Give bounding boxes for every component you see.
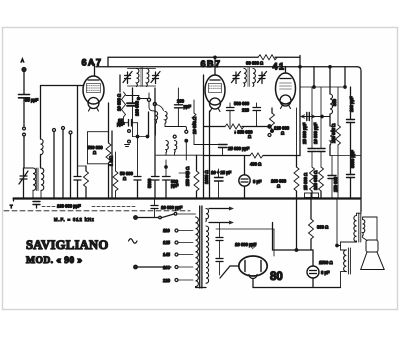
resistor 20000 ohm [192, 100, 219, 145]
svg-text:25 000 µµF: 25 000 µµF [228, 146, 250, 151]
bias line with resistor 400 ohm [204, 153, 301, 167]
heavy ground bus [14, 197, 361, 199]
svg-text:1 MΩ: 1 MΩ [109, 156, 114, 166]
mains switch [134, 213, 196, 220]
capacitor 10000uuF mains [151, 199, 183, 218]
junction dot [313, 86, 315, 88]
capacitor row 1 [147, 88, 159, 199]
osc upper switch circles [147, 93, 163, 111]
svg-text:M.F. = 312 kHz: M.F. = 312 kHz [54, 217, 95, 222]
wire left long [77, 86, 79, 177]
tube 6A7 [83, 64, 104, 111]
resistor 60000 ohm [246, 55, 277, 66]
svg-text:250 000 Ω: 250 000 Ω [331, 124, 336, 143]
capacitor 25000uuF column [302, 87, 316, 167]
long dashed shield line [4, 210, 190, 212]
resistor 500000 ohm [88, 103, 114, 199]
wire 41 cathode [296, 108, 298, 156]
wire [40, 155, 42, 169]
svg-text:250 000: 250 000 [333, 176, 338, 192]
IF transformer 2 [232, 68, 267, 87]
resistor 300 ohm [309, 199, 329, 251]
wire [111, 131, 113, 199]
svg-text:Ω: Ω [123, 176, 126, 181]
svg-text:Ω: Ω [93, 150, 96, 155]
AVC coupling capacitor [301, 113, 330, 121]
coil 1000 [330, 114, 333, 156]
svg-text:400 Ω: 400 Ω [250, 162, 261, 167]
fuse boxes [305, 193, 319, 198]
svg-text:41: 41 [273, 62, 286, 72]
svg-text:100 000 µµF: 100 000 µµF [57, 204, 81, 209]
AC squiggle [129, 239, 138, 244]
mains voltage taps [163, 228, 193, 283]
svg-text:SAVIGLIANO: SAVIGLIANO [26, 238, 109, 252]
svg-text:110: 110 [163, 228, 170, 233]
output transformer [354, 213, 377, 242]
resistor 25000 ohm [303, 167, 315, 199]
resistor 400 ohm cathode [78, 166, 89, 199]
tube 41 [276, 67, 296, 109]
svg-text:10 000 µµF: 10 000 µµF [235, 242, 257, 247]
svg-text:1500 Ω: 1500 Ω [319, 260, 333, 265]
resistor 100000 ohm [271, 156, 299, 199]
osc upper coil b [165, 112, 167, 124]
wire HT line [273, 199, 314, 252]
wire rectifier bottom bus [253, 287, 341, 289]
mains line with arrow [134, 265, 171, 269]
wire rectifier left [220, 266, 238, 278]
HT arrows to rectifier [209, 207, 234, 225]
svg-text:60 000 Ω: 60 000 Ω [246, 61, 263, 66]
electrolytic 8uF circle [239, 156, 262, 199]
power transformer [196, 206, 209, 288]
osc pad capacitor [74, 177, 81, 199]
svg-text:8 µF: 8 µF [321, 270, 330, 275]
wire [300, 86, 345, 88]
osc bottom rail [156, 155, 204, 175]
wire y155 extension [330, 155, 361, 157]
svg-text:50 µµF: 50 µµF [25, 98, 39, 103]
svg-text:220: 220 [163, 278, 171, 283]
terminal 120000 ohm [268, 125, 290, 136]
IF transformer 1 [123, 68, 160, 87]
ground capacitor [33, 202, 40, 209]
filter capacitors 10000uuF [216, 223, 257, 276]
osc upper coil a [156, 112, 158, 124]
svg-text:80: 80 [270, 271, 283, 283]
wire [41, 85, 84, 87]
svg-text:250 000 Ω: 250 000 Ω [185, 167, 190, 186]
svg-text:500 000: 500 000 [234, 101, 250, 106]
capacitor 10000uuF column [313, 87, 325, 167]
svg-text:Ω: Ω [281, 131, 284, 136]
svg-text:6B7: 6B7 [201, 59, 222, 69]
svg-text:Ω: Ω [248, 134, 251, 139]
svg-text:6A7: 6A7 [82, 58, 103, 68]
svg-text:100 000: 100 000 [135, 100, 140, 116]
wire tall [132, 88, 134, 103]
terminal T [10, 199, 14, 210]
svg-text:T: T [10, 204, 13, 209]
coupling capacitor 100000 [126, 96, 147, 137]
resistor 250000 ohm top [331, 87, 341, 199]
svg-text:5000: 5000 [147, 178, 152, 188]
wire [209, 111, 211, 199]
svg-text:850: 850 [332, 98, 337, 106]
antenna coil pair [24, 168, 44, 199]
svg-text:µµF: µµF [184, 104, 192, 109]
switch terminal [62, 127, 65, 199]
svg-text:100 000 Ω: 100 000 Ω [313, 171, 318, 190]
band switch contacts mid [125, 130, 131, 147]
wire plate line y229 [216, 229, 274, 256]
resistor 250000 vertical [185, 155, 199, 198]
loudspeaker [361, 240, 385, 270]
field coil [336, 199, 357, 288]
wire [203, 75, 205, 199]
svg-text:20 000 Ω: 20 000 Ω [192, 117, 197, 134]
svg-text:10 000 Ω: 10 000 Ω [117, 94, 122, 111]
svg-text:10 + 25 µF: 10 + 25 µF [211, 170, 232, 175]
dashed line 100000uuF [42, 206, 135, 208]
wire [313, 67, 315, 88]
svg-text:10 000 µµF: 10 000 µµF [161, 205, 183, 210]
resistor 10000 ohm [117, 75, 126, 117]
electrolytic 10+25uF [211, 169, 232, 199]
svg-text:A: A [21, 58, 24, 63]
tube 6B7 [205, 57, 225, 111]
capacitor 100uuF [347, 87, 355, 174]
antenna terminal A [21, 58, 26, 94]
top bus wires [96, 56, 361, 212]
RF coil L1 [41, 139, 44, 155]
resistor under 41 [268, 108, 275, 137]
svg-text:200: 200 [177, 99, 185, 104]
osc junction dots [133, 112, 149, 138]
svg-text:220: 220 [242, 108, 250, 113]
svg-text:125: 125 [163, 240, 171, 245]
capacitor 15uuF [117, 117, 138, 135]
resistor 350000 ohm [204, 124, 268, 139]
capacitor 50uuF antenna [19, 95, 39, 127]
svg-text:5000 µµF: 5000 µµF [350, 150, 355, 168]
svg-text:10 000 µµF: 10 000 µµF [313, 122, 318, 144]
switch terminal [69, 131, 72, 199]
svg-text:145: 145 [163, 252, 171, 257]
svg-text:25 000 µµF: 25 000 µµF [302, 122, 307, 144]
capacitor 5000uuF [347, 150, 356, 199]
svg-text:MOD. « 90 »: MOD. « 90 » [26, 255, 83, 266]
capacitor 220 [253, 103, 261, 127]
svg-text:8 µF: 8 µF [253, 179, 262, 184]
tuning trimmer [19, 168, 28, 199]
capacitor 250000 [328, 156, 338, 199]
osc switch wire [156, 124, 188, 161]
resistor 100000 ohm right [313, 167, 324, 199]
capacitor 500000 [227, 101, 250, 127]
choke 850 [330, 67, 337, 115]
svg-text:100 µµF: 100 µµF [349, 96, 354, 112]
svg-text:300 Ω: 300 Ω [317, 225, 328, 230]
wire 41 plate [299, 56, 301, 156]
oscillator coil a [166, 141, 168, 156]
resistor 50000 ohm [113, 152, 133, 199]
oscillator coil b [175, 141, 177, 156]
wire [344, 67, 346, 87]
svg-text:µµF: µµF [171, 183, 179, 188]
capacitor 25000uuF [219, 145, 250, 156]
rectifier 80 [239, 256, 267, 288]
wave-band switch contacts [23, 127, 26, 168]
capacitor osc [134, 138, 141, 199]
capacitor row 2 [163, 160, 179, 199]
capacitor 200uuF [175, 88, 192, 127]
electrolytic 8uF right [307, 250, 333, 288]
svg-text:1000 Ω: 1000 Ω [204, 170, 209, 184]
svg-text:25 000 Ω: 25 000 Ω [303, 173, 308, 190]
switch terminal [53, 129, 56, 199]
wire [40, 86, 42, 140]
svg-text:Ω: Ω [277, 184, 280, 189]
